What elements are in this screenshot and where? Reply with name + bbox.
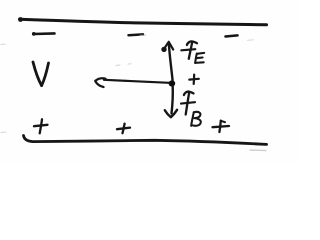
minus sign 1 xyxy=(34,32,55,35)
force arrow f_B (down) shaft xyxy=(172,86,173,114)
velocity arrow arrowhead xyxy=(95,78,105,87)
plus sign 1 xyxy=(34,119,48,133)
label f_E : subscript E xyxy=(195,53,204,63)
label V xyxy=(33,62,49,86)
label f_B : letter f xyxy=(181,92,195,115)
force arrow f_E (up) shaft xyxy=(169,44,173,81)
force arrow f_E arrowhead xyxy=(163,42,173,51)
label f_B : subscript B xyxy=(191,112,201,126)
minus sign 2 xyxy=(129,33,144,36)
plus sign 3 xyxy=(213,121,230,132)
minus sign 1 blob xyxy=(32,32,36,36)
force arrow f_B arrowhead xyxy=(165,110,177,117)
top plate line xyxy=(20,19,267,25)
minus sign 3 xyxy=(226,35,238,36)
top plate pen-start blob xyxy=(18,17,23,22)
charge dot xyxy=(169,80,176,86)
plus sign 2 xyxy=(117,124,130,134)
plus sign at charge xyxy=(189,75,199,84)
bottom plate line xyxy=(24,136,267,145)
label f_E : letter f xyxy=(181,41,197,58)
faint speckles xyxy=(1,35,254,132)
faint smudge bottom right xyxy=(250,149,266,152)
velocity arrow (left) shaft xyxy=(104,80,169,83)
